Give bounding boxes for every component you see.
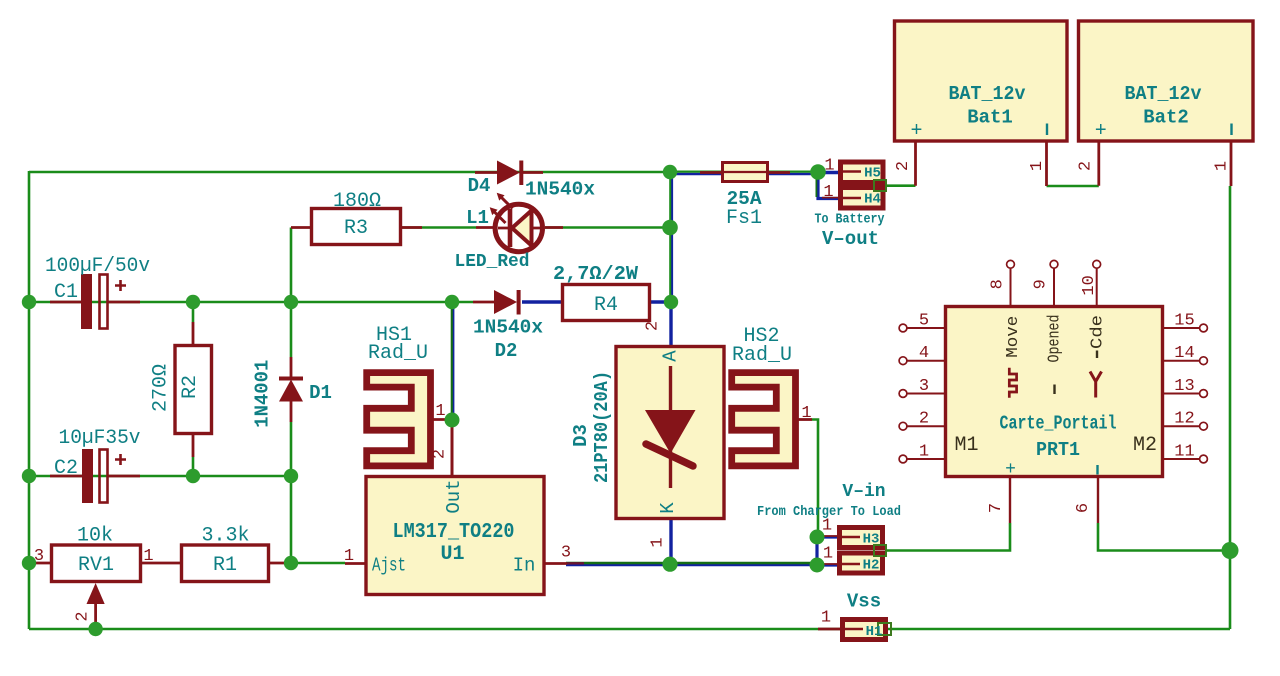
wire H3-H2 navy link <box>815 537 818 565</box>
svg-text:+: + <box>1095 120 1107 143</box>
svg-text:H5: H5 <box>864 166 881 182</box>
svg-text:1: 1 <box>801 404 811 423</box>
wire HS2 pin to V-in drop <box>812 420 818 539</box>
wire D3 cathode navy <box>669 519 672 564</box>
connector H4 <box>841 188 884 209</box>
wire HS1 drop green <box>451 302 454 423</box>
svg-text:K: K <box>657 502 679 514</box>
svg-text:1: 1 <box>824 157 834 176</box>
junction left border / C2 rail <box>22 469 36 483</box>
connector H1 <box>843 620 886 640</box>
svg-text:10k: 10k <box>77 525 113 548</box>
junction R4 / D3 anode <box>664 295 678 309</box>
svg-text:1: 1 <box>919 443 929 462</box>
connector H3/H2 open pin square <box>874 545 886 556</box>
svg-text:10µF35v: 10µF35v <box>59 427 141 450</box>
svg-text:3.3k: 3.3k <box>201 525 249 548</box>
junction top rail / D4 output <box>663 165 677 179</box>
svg-text:C1: C1 <box>54 281 78 304</box>
capacitor C1 plus sign <box>115 280 126 291</box>
svg-text:H3: H3 <box>863 532 880 548</box>
svg-text:3: 3 <box>34 547 44 566</box>
wire H3 stub navy <box>817 535 837 538</box>
diode D4 pins <box>475 171 543 174</box>
heatsink HS1 pin1 <box>433 418 452 421</box>
junction R1 / Ajst wire <box>284 556 298 570</box>
capacitor C2 plus sign <box>115 454 126 465</box>
heatsink HS2 pin1 <box>798 418 812 421</box>
junction right border / PRT1 pin6 wire <box>1222 542 1239 559</box>
LED L1 pins <box>476 226 563 229</box>
svg-text:Vss: Vss <box>847 591 881 613</box>
svg-text:Bat2: Bat2 <box>1143 107 1189 129</box>
svg-text:Opened: Opened <box>1046 315 1065 363</box>
wire H-connector to PRT1 pin7 <box>886 523 1010 551</box>
regulator U1 Out pin <box>451 422 454 476</box>
svg-text:2: 2 <box>894 161 913 171</box>
wire D1 bottom vertical to Ajst row <box>290 422 293 563</box>
PRT1 minus pin name <box>1096 465 1098 475</box>
svg-text:U1: U1 <box>440 543 464 566</box>
svg-text:C2: C2 <box>54 457 78 480</box>
svg-text:H4: H4 <box>864 192 881 208</box>
svg-text:R4: R4 <box>594 294 618 317</box>
wire Bat1 minus to Bat2 plus <box>1047 185 1099 188</box>
svg-text:1: 1 <box>1213 161 1232 171</box>
svg-text:RV1: RV1 <box>78 554 114 577</box>
svg-text:180Ω: 180Ω <box>333 190 381 213</box>
svg-text:1: 1 <box>1028 161 1047 171</box>
svg-text:BAT_12v: BAT_12v <box>949 83 1027 105</box>
wire left border vertical <box>28 171 31 629</box>
diode D4 <box>497 161 520 185</box>
junction fuse output / H5 <box>810 164 826 180</box>
fuse Fs1 <box>723 163 768 182</box>
wire top rail <box>29 171 670 174</box>
svg-text:R2: R2 <box>179 375 202 399</box>
resistor R2 pins <box>192 322 195 457</box>
heatsink HS1 <box>367 373 431 466</box>
svg-text:8: 8 <box>988 279 1007 289</box>
junction C1 rail / D1 top <box>284 295 298 309</box>
capacitor C2 <box>82 449 93 503</box>
wire H2 stub navy <box>817 563 837 566</box>
svg-text:14: 14 <box>1174 344 1194 363</box>
wire Ajst row green <box>291 562 345 565</box>
svg-text:PRT1: PRT1 <box>1036 439 1080 461</box>
LED L1 internal line <box>498 227 540 230</box>
Bat2 minus pin name <box>1230 124 1232 136</box>
heatsink HS2 <box>732 373 796 466</box>
junction In wire / D3 cathode <box>662 557 677 572</box>
wire R2 top stub green <box>192 302 195 322</box>
capacitor C1 <box>81 274 92 329</box>
junction C1 rail / R2 top <box>186 295 200 309</box>
wire fuse to battery plus <box>884 184 916 187</box>
svg-text:1: 1 <box>649 537 668 547</box>
svg-text:6: 6 <box>1074 503 1093 513</box>
svg-text:D4: D4 <box>468 175 491 197</box>
wire mid rail y302 <box>29 301 473 304</box>
connector H2 <box>840 553 883 573</box>
svg-text:4: 4 <box>919 344 929 363</box>
resistor R3 <box>312 209 401 245</box>
PRT1 left pins 5,4,3,2,1 <box>907 328 946 459</box>
junction C2 rail / D1 bottom <box>284 469 298 483</box>
capacitor C2 pins <box>50 475 140 478</box>
svg-text:H2: H2 <box>863 558 880 574</box>
svg-text:V–out: V–out <box>822 228 879 250</box>
wire LED row to vertical junction <box>545 226 671 229</box>
svg-text:D3: D3 <box>570 424 592 447</box>
junction left border / C1 rail <box>22 295 36 309</box>
LED L1 arrows <box>494 212 506 224</box>
wire HS1 drop navy tint <box>453 302 455 420</box>
connector H5 <box>841 162 884 183</box>
svg-text:25A: 25A <box>726 188 761 210</box>
wire vertical x671 navy underlay <box>671 172 673 303</box>
svg-text:R3: R3 <box>344 217 368 240</box>
diode D1 <box>279 380 303 402</box>
svg-text:7: 7 <box>987 503 1006 513</box>
svg-text:In: In <box>513 555 536 577</box>
connector H1 pin <box>818 628 840 631</box>
wire right border vertical <box>1229 186 1232 629</box>
svg-text:+: + <box>1005 460 1016 480</box>
svg-text:3: 3 <box>919 377 929 396</box>
svg-text:1N540x: 1N540x <box>525 179 595 201</box>
battery Bat2 pins <box>1099 141 1231 186</box>
PRT1 pin10 Y icon <box>1090 372 1102 398</box>
svg-text:Rad_U: Rad_U <box>368 342 428 365</box>
svg-text:Carte_Portail: Carte_Portail <box>1000 413 1117 435</box>
svg-text:LM317_TO220: LM317_TO220 <box>393 521 515 544</box>
svg-text:1: 1 <box>821 609 831 628</box>
svg-text:BAT_12v: BAT_12v <box>1125 83 1203 105</box>
PRT1 right pins 15,14,13,12,11 <box>1163 328 1200 459</box>
svg-text:D1: D1 <box>309 382 332 404</box>
junction V-in / H3 <box>810 530 825 545</box>
svg-text:3: 3 <box>561 544 571 563</box>
svg-text:270Ω: 270Ω <box>150 364 173 412</box>
regulator U1 Ajst pin <box>345 562 366 565</box>
svg-text:21PT80(20A): 21PT80(20A) <box>591 371 613 483</box>
svg-text:11: 11 <box>1174 443 1194 462</box>
gate board PRT1 body <box>946 307 1163 477</box>
resistor R1 <box>182 545 269 582</box>
svg-text:V–in: V–in <box>842 482 885 502</box>
svg-text:10: 10 <box>1080 275 1099 295</box>
svg-text:R1: R1 <box>213 554 237 577</box>
junction LED rail <box>662 220 678 236</box>
PRT1 pin8 waveform icon <box>1009 368 1016 398</box>
thyristor D3 body <box>616 347 724 519</box>
svg-text:Out: Out <box>443 479 465 513</box>
resistor R4 <box>563 285 650 321</box>
potentiometer RV1 pins <box>29 562 181 565</box>
svg-text:100µF/50v: 100µF/50v <box>45 255 150 278</box>
resistor R1 pins <box>269 562 291 565</box>
wire R3 pin drop vertical <box>290 228 293 303</box>
svg-text:2: 2 <box>919 410 929 429</box>
fuse Fs1 pins <box>700 171 790 174</box>
wire U1 In to H2 dark green <box>566 562 818 564</box>
svg-text:H1: H1 <box>866 624 883 640</box>
junction left border / RV1 pin3 <box>22 556 36 570</box>
svg-text:12: 12 <box>1174 410 1194 429</box>
potentiometer RV1 wiper arrow <box>87 583 105 604</box>
battery Bat1 pins <box>916 141 1047 186</box>
svg-text:15: 15 <box>1174 312 1194 331</box>
wire D1 top vertical <box>290 302 293 357</box>
svg-text:Fs1: Fs1 <box>726 207 762 230</box>
wire D2 to R4 navy <box>522 300 562 303</box>
resistor R3 pins <box>291 226 422 229</box>
resistor R2 <box>175 346 212 434</box>
svg-text:1: 1 <box>143 547 153 566</box>
wire H5 stub navy <box>818 171 838 175</box>
pin name Cde dash <box>1096 351 1098 359</box>
wire H4 stub green overlay <box>815 172 817 197</box>
svg-text:13: 13 <box>1174 377 1194 396</box>
wire top rail navy underlay <box>670 173 820 175</box>
junction C1 rail / HS1 drop <box>445 295 459 309</box>
battery Bat2 body <box>1079 21 1254 141</box>
thyristor D3 symbol <box>669 366 672 410</box>
wire vertical x671 green <box>669 172 671 303</box>
wire LED row from R3 <box>401 226 476 229</box>
svg-text:M2: M2 <box>1133 434 1157 457</box>
svg-text:1: 1 <box>823 183 833 202</box>
wire R2 bottom stub green <box>192 457 195 476</box>
svg-text:1N540x: 1N540x <box>473 317 543 339</box>
junction C2 rail / R2 bottom <box>186 469 200 483</box>
wire bottom rail <box>29 628 1230 631</box>
regulator U1 body <box>366 477 544 595</box>
svg-text:2,7Ω/2W: 2,7Ω/2W <box>553 263 639 285</box>
junction HS1 pin1 / U1 out <box>445 413 460 428</box>
diode D2 pins <box>473 301 494 304</box>
battery Bat1 body <box>895 21 1068 141</box>
svg-text:1N4001: 1N4001 <box>252 360 274 428</box>
pin name Opened dash <box>1053 385 1055 395</box>
svg-text:A: A <box>660 350 682 362</box>
junction bottom rail / RV1 wiper <box>88 622 102 636</box>
connector H1 open pin square <box>878 623 891 635</box>
connector H5/H4 open pin square <box>874 180 886 191</box>
svg-text:1: 1 <box>344 547 354 566</box>
wire R4 to D3 corner navy <box>650 302 671 346</box>
svg-text:2: 2 <box>644 321 663 331</box>
potentiometer RV1 <box>52 545 141 582</box>
svg-text:1: 1 <box>822 517 832 536</box>
wire U1 In to H2 navy underlay <box>566 564 818 567</box>
connector H3 <box>840 528 883 548</box>
LED L1 triangle <box>512 211 532 246</box>
capacitor C1 pins <box>50 301 140 304</box>
svg-text:Rad_U: Rad_U <box>732 344 792 367</box>
svg-text:9: 9 <box>1032 279 1051 289</box>
svg-text:M1: M1 <box>954 434 978 457</box>
wire PRT1 pin6 to right border <box>1098 523 1230 551</box>
wire H4 stub navy <box>818 172 838 199</box>
diode D2 <box>494 290 517 314</box>
svg-text:1: 1 <box>435 402 445 421</box>
svg-text:To Battery: To Battery <box>815 213 885 228</box>
PRT1 bottom pins 7,6 <box>1010 477 1098 523</box>
wire C2 rail y476 <box>29 475 291 478</box>
svg-text:5: 5 <box>919 312 929 331</box>
svg-text:D2: D2 <box>495 340 518 362</box>
svg-text:+: + <box>910 120 922 143</box>
svg-text:2: 2 <box>74 611 93 621</box>
LED L1 circle <box>495 204 542 251</box>
svg-text:LED_Red: LED_Red <box>455 252 530 272</box>
svg-text:1: 1 <box>823 545 833 564</box>
diode D1 pins <box>290 357 293 422</box>
svg-text:2: 2 <box>431 449 450 459</box>
svg-text:Move: Move <box>1004 316 1023 358</box>
svg-text:Bat1: Bat1 <box>967 107 1013 129</box>
regulator U1 In pin <box>545 562 567 565</box>
junction In wire / H2 <box>810 558 825 573</box>
PRT1 top pins 8,9,10 <box>1011 268 1097 306</box>
svg-text:Ajst: Ajst <box>372 555 406 577</box>
svg-text:L1: L1 <box>466 207 489 229</box>
svg-text:Cde: Cde <box>1089 315 1108 349</box>
wire top rail green over navy <box>670 171 818 173</box>
Bat1 minus pin name <box>1046 124 1048 136</box>
svg-text:2: 2 <box>1077 161 1096 171</box>
LED L1 cathode bar <box>508 209 513 247</box>
